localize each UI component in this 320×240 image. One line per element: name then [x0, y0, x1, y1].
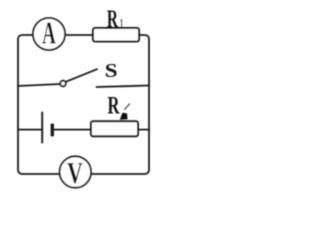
rheostat arrowhead: [120, 113, 128, 120]
resistor R1: [93, 4, 139, 42]
wire outer loop (left vertical, top run, right vertical, bottom run): [18, 35, 149, 174]
wire switch row right segment: [97, 86, 150, 88]
switch S: [60, 59, 117, 86]
resistor R2 (rheostat): [91, 91, 138, 136]
voltmeter V: [60, 155, 91, 190]
svg-text:R: R: [107, 4, 119, 33]
svg-text:V: V: [67, 155, 83, 190]
wire switch row left segment: [18, 84, 60, 86]
wire battery row middle segment: [53, 129, 92, 131]
svg-text:R: R: [108, 91, 120, 119]
ammeter A: [33, 16, 65, 51]
rheostat arrow shaft: [125, 104, 130, 109]
svg-text:A: A: [42, 16, 56, 51]
wire battery row left segment: [18, 129, 42, 131]
battery cell (short thick plate): [51, 124, 54, 137]
wire battery row right segment: [137, 129, 149, 131]
svg-text:S: S: [105, 59, 118, 81]
svg-text:1: 1: [119, 16, 123, 32]
battery cell (long plate): [41, 113, 43, 143]
